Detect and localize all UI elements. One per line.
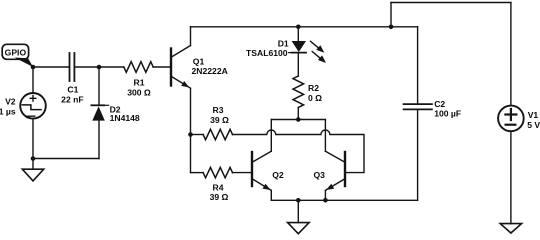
wire V1 to ground: [510, 131, 512, 223]
wire C1 to D2 node: [74, 66, 99, 68]
wire GPIO node down to V2: [32, 67, 34, 93]
wire D2 node to R1: [99, 66, 124, 68]
node supply branch junction: [389, 25, 394, 30]
svg-text:1N4148: 1N4148: [110, 113, 140, 123]
wire GPIO node to C1: [33, 66, 70, 68]
wire R2 to collector rail: [297, 108, 299, 120]
svg-text:1 µs: 1 µs: [0, 107, 16, 117]
wire R3 lead-in: [191, 134, 204, 136]
wire top rail down to V1: [510, 3, 512, 106]
wire R4 to Q2 base: [232, 172, 252, 174]
svg-text:R3: R3: [213, 105, 224, 115]
ground (V2): [22, 159, 43, 181]
wire C2 column down: [417, 27, 419, 104]
node collector rail junction: [296, 117, 301, 122]
transistor Q2: [252, 151, 284, 200]
node Q3 emitter junction: [323, 198, 328, 203]
wire R1 to Q1 base: [153, 66, 171, 68]
capacitor C1: [61, 53, 83, 105]
transistor Q1 2N2222A: [171, 27, 228, 135]
wire C2 bottom down: [417, 109, 419, 200]
node R3 R4 branch junction: [188, 132, 193, 137]
svg-text:Q3: Q3: [314, 170, 326, 180]
resistor R1 300: [124, 62, 153, 98]
svg-text:Q2: Q2: [272, 170, 284, 180]
diode D2 1N4148: [91, 104, 140, 122]
wire top rail: [391, 2, 511, 4]
capacitor C2 100uF: [404, 99, 462, 119]
GPIO port label: [2, 44, 33, 67]
voltage source V1 5V: [498, 106, 540, 132]
resistor R4 39: [203, 167, 232, 202]
wire collector rail: [271, 119, 325, 121]
ground (V1): [500, 224, 521, 233]
wire Q3 collector stub: [324, 120, 326, 152]
wire emitter bottom rail: [271, 199, 417, 201]
svg-text:R1: R1: [134, 78, 145, 88]
wire D2 return to V2 node: [33, 158, 99, 160]
wire R3 to Q3 base with hops: [232, 130, 364, 173]
svg-text:100 µF: 100 µF: [434, 109, 461, 119]
wire D1 to R2: [297, 53, 299, 76]
node GPIO junction: [31, 65, 36, 70]
wire Q1 collector top run: [191, 26, 299, 28]
svg-text:22 nF: 22 nF: [61, 95, 83, 105]
node V2 ground junction: [31, 156, 36, 161]
wire V2 to ground node: [32, 119, 34, 159]
LED D1 TSAL6100: [246, 27, 326, 63]
svg-text:39 Ω: 39 Ω: [210, 115, 229, 125]
resistor R3 39: [203, 105, 232, 140]
resistor R2 0 ohm: [293, 76, 322, 108]
svg-text:0 Ω: 0 Ω: [308, 93, 322, 103]
svg-text:C2: C2: [434, 99, 445, 109]
svg-text:2N2222A: 2N2222A: [192, 66, 228, 76]
svg-text:V1: V1: [528, 110, 539, 120]
wire R4 lead-in: [191, 172, 204, 174]
svg-text:5 V: 5 V: [527, 120, 540, 130]
wire supply node up to top rail: [390, 3, 392, 27]
wire top run to supply node: [298, 26, 391, 28]
svg-text:R4: R4: [213, 183, 224, 193]
svg-text:C1: C1: [67, 85, 78, 95]
ground (emitters): [288, 200, 310, 233]
svg-text:TSAL6100: TSAL6100: [246, 48, 288, 58]
transistor Q3: [314, 151, 346, 200]
wire emitter node down to R4 row: [190, 135, 192, 173]
svg-text:R2: R2: [308, 83, 319, 93]
wire Q2 collector stub: [270, 120, 272, 152]
wire D2 node down to D2 cathode: [98, 67, 100, 105]
svg-text:39 Ω: 39 Ω: [210, 192, 229, 202]
voltage source V2 pulse: [0, 93, 46, 119]
wire supply node to C2 column: [391, 26, 418, 28]
svg-text:GPIO: GPIO: [5, 47, 27, 57]
wire D2 anode down: [98, 121, 100, 159]
node D2 branch junction: [97, 65, 102, 70]
svg-text:300 Ω: 300 Ω: [127, 88, 151, 98]
node ground junction: [296, 198, 301, 203]
node D1 branch junction: [296, 25, 301, 30]
svg-text:V2: V2: [5, 97, 16, 107]
